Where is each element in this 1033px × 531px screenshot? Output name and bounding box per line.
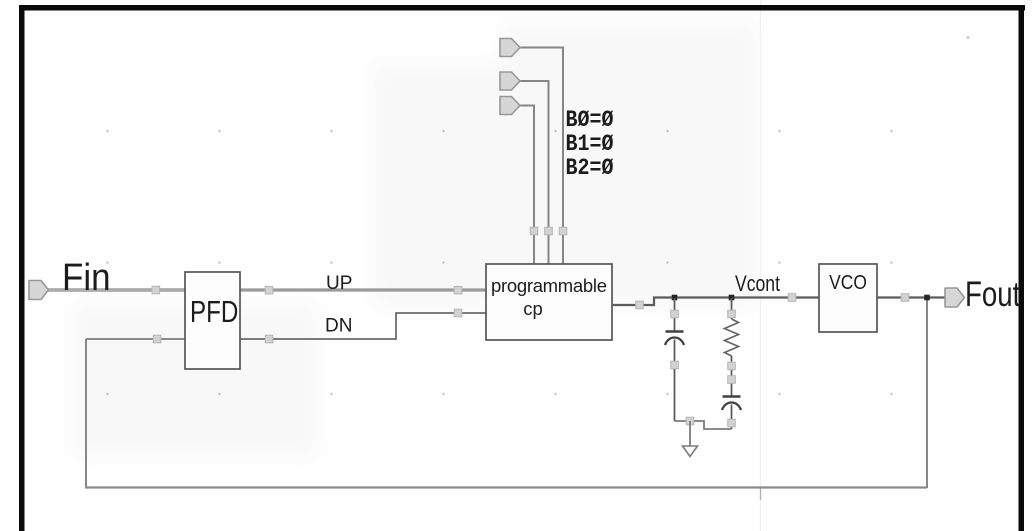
wire cp output to node	[612, 298, 819, 306]
svg-text:BØ=Ø: BØ=Ø	[566, 108, 614, 134]
ground	[683, 421, 698, 457]
svg-text:programmable: programmable	[491, 275, 607, 296]
svg-text:Fin: Fin	[62, 256, 111, 299]
svg-text:UP: UP	[326, 273, 352, 294]
wire B2 input	[519, 106, 534, 265]
wire filter bottom	[675, 421, 732, 429]
block programmable cp U1	[486, 264, 612, 340]
wire feedback left vertical	[85, 339, 87, 488]
wire Fin	[47, 288, 185, 292]
wire feedback into PFD	[86, 338, 185, 340]
border frame (decorative)	[19, 5, 1025, 11]
wire UP	[240, 288, 486, 291]
capacitor C1	[665, 298, 684, 421]
wire feedback bottom	[85, 486, 927, 488]
svg-text:PFD: PFD	[190, 294, 238, 329]
svg-text:Vcont: Vcont	[735, 272, 780, 296]
resistor R1	[725, 298, 739, 396]
node junction A	[672, 295, 678, 301]
wire B1 input	[519, 81, 549, 264]
input port B0	[500, 39, 520, 57]
block PFD	[185, 272, 240, 369]
node junction Fout	[924, 295, 930, 301]
input port B1	[500, 72, 520, 90]
svg-text:DN: DN	[325, 316, 352, 337]
capacitor C2	[722, 397, 741, 430]
wire VCO output	[877, 296, 945, 298]
block VCO	[819, 264, 877, 332]
svg-text:B1=Ø: B1=Ø	[566, 132, 614, 158]
wire feedback right vertical	[926, 298, 928, 489]
svg-text:Fout: Fout	[965, 274, 1020, 314]
input port Fin	[29, 281, 49, 300]
wire B0 input	[519, 48, 563, 265]
output port Fout	[945, 288, 965, 307]
node junction B	[729, 295, 735, 301]
svg-text:VCO: VCO	[829, 272, 867, 295]
svg-text:cp: cp	[523, 298, 543, 319]
wire DN	[240, 313, 486, 339]
input port B2	[500, 97, 520, 115]
pin squares on B wires	[530, 227, 567, 235]
svg-text:B2=Ø: B2=Ø	[566, 156, 614, 182]
